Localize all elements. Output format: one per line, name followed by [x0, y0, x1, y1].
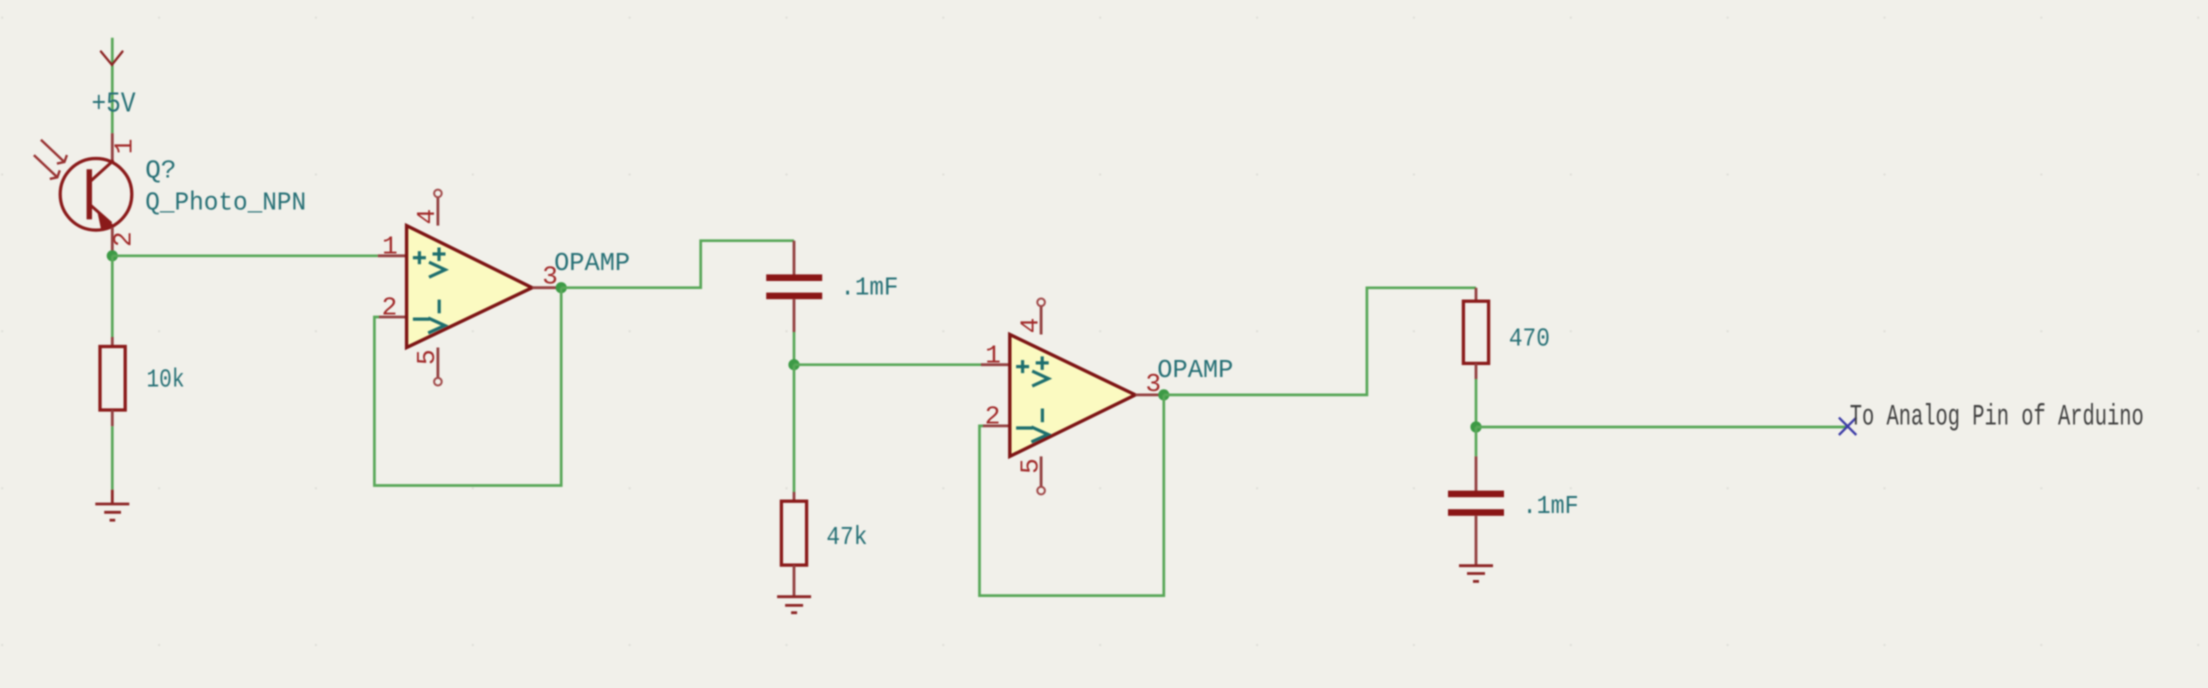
svg-text:2: 2: [382, 293, 398, 323]
light arrow 2 into Q1: [34, 155, 60, 179]
op-amp U1 pin 3 output stub: [532, 286, 561, 289]
resistor R1 bottom pin: [111, 410, 114, 426]
svg-text:.1mF: .1mF: [840, 272, 898, 302]
node D (U2 output): [1158, 389, 1169, 400]
op-amp U2 pin 1 stub: [981, 363, 1010, 366]
op-amp U1 pin 5 stub: [436, 348, 439, 378]
transistor Q1 pin 2 (emitter): [111, 227, 114, 256]
capacitor C1 top pin: [793, 241, 796, 275]
wire node A to op-amp U1 input: [112, 254, 378, 257]
svg-text:2: 2: [985, 401, 1001, 431]
op-amp U2 V- label (rotated): [1031, 409, 1048, 442]
resistor R3 top pin: [1475, 288, 1478, 301]
feedback wire U2 output to inverting input: [980, 395, 1164, 596]
svg-text:.1mF: .1mF: [1523, 491, 1579, 521]
svg-text:4: 4: [412, 209, 442, 225]
op-amp U1 V+ label (rotated): [429, 248, 446, 278]
svg-text:1: 1: [109, 139, 139, 155]
wire node C to op-amp U2 input: [794, 363, 983, 366]
node C junction: [788, 359, 799, 370]
wire node E to output X: [1476, 426, 1848, 429]
op-amp U1 V- label (rotated): [428, 300, 445, 333]
resistor R1 10k body: [100, 347, 125, 411]
ground symbol GND2: [777, 597, 811, 613]
wire node A down to R1: [111, 256, 114, 337]
wire R1 to ground: [111, 426, 114, 489]
transistor Q1 Q_Photo_NPN body: [60, 159, 132, 231]
light arrow 1 into Q1: [41, 140, 67, 164]
wire U1 output to C1: [561, 241, 794, 288]
svg-text:470: 470: [1509, 323, 1550, 353]
resistor R2 top pin: [793, 492, 796, 501]
op-amp U1 pin 2 stub: [379, 316, 407, 319]
power symbol +5V arrow: [101, 52, 123, 65]
resistor R2 47k body: [781, 501, 806, 565]
svg-text:1: 1: [382, 232, 398, 262]
wire +5V stem: [111, 38, 114, 133]
svg-text:5: 5: [1015, 458, 1045, 474]
op-amp U2 V+ label (rotated): [1032, 356, 1049, 386]
capacitor C2 bottom pin: [1475, 516, 1478, 566]
svg-text:Q_Photo_NPN: Q_Photo_NPN: [145, 188, 306, 218]
svg-text:+5V: +5V: [92, 87, 136, 120]
svg-text:5: 5: [412, 349, 442, 365]
svg-text:10k: 10k: [147, 365, 185, 395]
op-amp U1 pin 4 stub: [436, 197, 439, 225]
node B (U1 output): [556, 282, 567, 293]
feedback wire U1 output to inverting input: [374, 288, 561, 486]
op-amp U2 pin 2 stub: [982, 424, 1010, 427]
op-amp U2 pin 5 open end: [1037, 487, 1045, 495]
op-amp U2 triangle body: [1010, 335, 1136, 457]
resistor R3 bottom pin: [1475, 363, 1478, 379]
node A junction: [107, 250, 118, 261]
op-amp U1 pin 1 stub: [378, 254, 407, 257]
wire R3 to node E: [1475, 379, 1478, 427]
resistor R1 top pin: [111, 337, 114, 347]
wire U2 output to R3: [1164, 288, 1476, 395]
op-amp U2 pin 4 stub: [1040, 306, 1043, 334]
node E junction: [1470, 421, 1481, 432]
op-amp U1 minus input mark: [413, 318, 430, 321]
wire C1 to node C: [793, 332, 796, 365]
unconnected X marker: [1839, 418, 1856, 435]
capacitor C1 .1mF plates: [766, 274, 822, 299]
svg-text:1: 1: [985, 341, 1001, 371]
op-amp U1 pin 5 open end: [434, 378, 442, 386]
op-amp U2 plus input mark: [1016, 360, 1029, 373]
svg-text:Q?: Q?: [145, 155, 176, 185]
op-amp U1 plus input mark: [413, 251, 426, 264]
svg-text:4: 4: [1015, 318, 1045, 334]
op-amp U2 pin 5 stub: [1040, 456, 1043, 486]
svg-text:OPAMP: OPAMP: [1157, 355, 1233, 385]
op-amp U2 minus input mark: [1016, 426, 1033, 429]
svg-text:To Analog Pin of Arduino: To Analog Pin of Arduino: [1850, 399, 2144, 433]
op-amp U2 pin 3 output stub: [1135, 393, 1164, 396]
ground symbol GND1: [95, 490, 129, 521]
op-amp U1 triangle body: [407, 226, 532, 348]
capacitor C1 bottom pin: [793, 299, 796, 332]
op-amp U2 pin 4 open end: [1037, 299, 1045, 307]
transistor Q1 pin 1 (collector): [111, 133, 114, 161]
op-amp U1 pin 4 open end: [434, 190, 442, 198]
svg-text:OPAMP: OPAMP: [554, 248, 630, 278]
capacitor C2 .1mF plates: [1448, 491, 1504, 516]
wire node C down to R2: [793, 365, 796, 492]
resistor R2 bottom pin: [793, 565, 796, 597]
capacitor C2 top pin: [1475, 456, 1478, 491]
svg-text:47k: 47k: [826, 522, 867, 552]
resistor R3 470 body: [1463, 301, 1488, 363]
wire node E down to C2: [1475, 427, 1478, 456]
svg-text:2: 2: [108, 231, 138, 247]
ground symbol GND3: [1459, 566, 1493, 582]
